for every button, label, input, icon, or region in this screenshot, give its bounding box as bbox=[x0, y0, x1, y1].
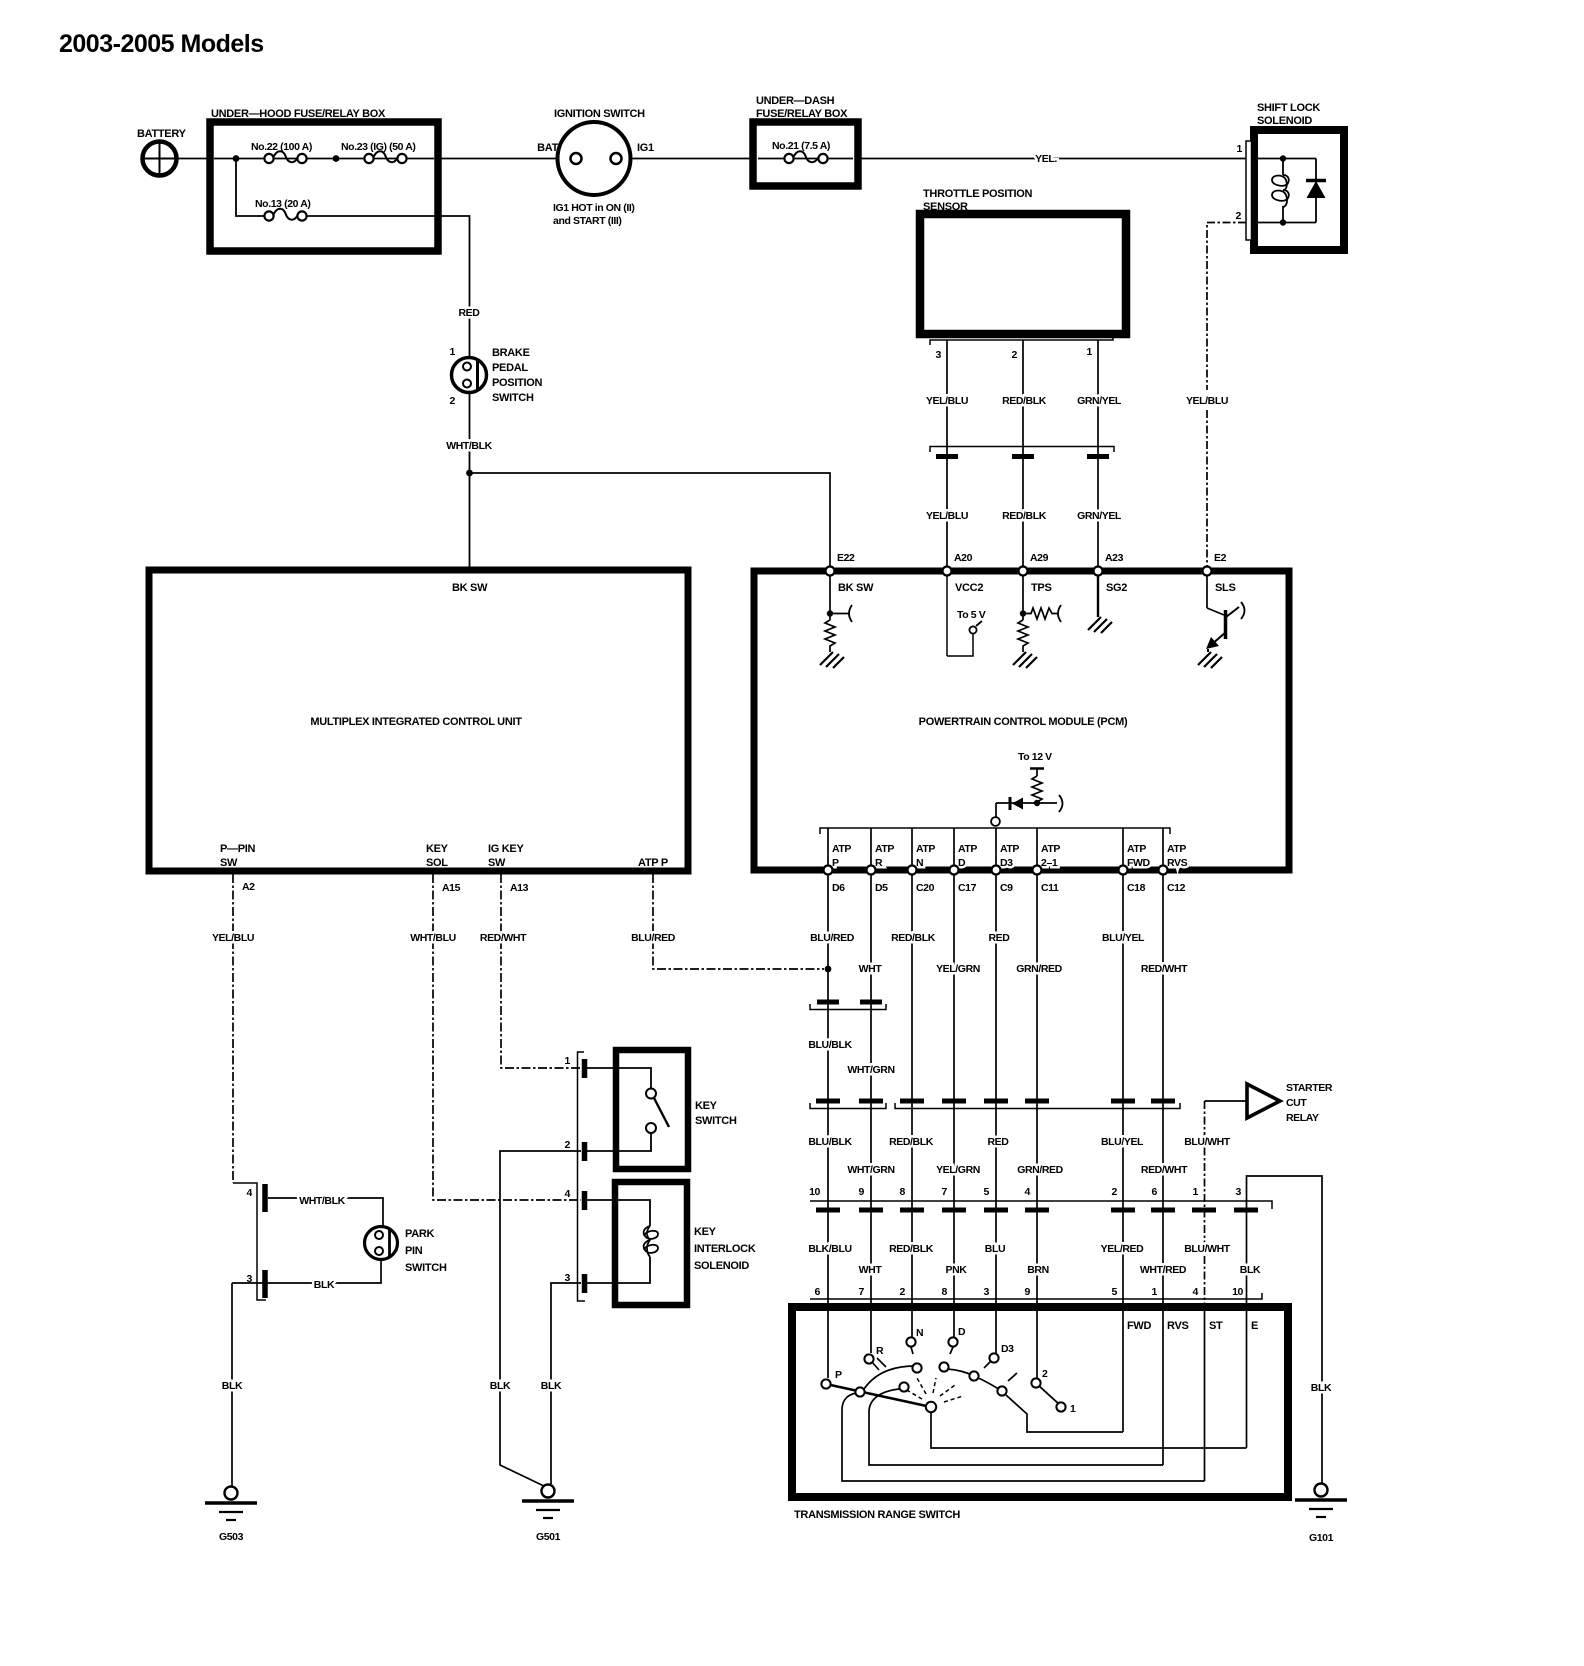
wire RED/WHT MICU A13 to key switch pin 1 bbox=[501, 874, 581, 1068]
range switch routing: FWD U-path bbox=[1006, 1395, 1123, 1432]
ground G501 bbox=[522, 1485, 574, 1544]
wire YEL/BLU from solenoid pin 2 down to PCM E2 bbox=[1207, 223, 1246, 391]
key interlock solenoid coil L2 bbox=[587, 1200, 658, 1283]
svg-text:POSITION: POSITION bbox=[492, 377, 543, 389]
svg-text:A20: A20 bbox=[954, 552, 973, 564]
svg-text:1: 1 bbox=[450, 346, 456, 358]
ignition switch bbox=[537, 108, 654, 227]
svg-text:C9: C9 bbox=[1000, 882, 1013, 894]
svg-text:C18: C18 bbox=[1127, 882, 1146, 894]
svg-text:N: N bbox=[916, 857, 923, 869]
svg-text:To 12 V: To 12 V bbox=[1018, 751, 1052, 763]
connector C1 below TPS (bracket and terminal bars) bbox=[930, 447, 1114, 457]
PCM pin ATP FWD / C18 bbox=[1119, 843, 1151, 894]
svg-text:GRN/RED: GRN/RED bbox=[1017, 1164, 1063, 1176]
svg-text:SLS: SLS bbox=[1215, 582, 1236, 594]
svg-text:1: 1 bbox=[1237, 143, 1243, 155]
key switch box bbox=[616, 1050, 737, 1169]
svg-text:BK SW: BK SW bbox=[838, 582, 874, 594]
svg-text:6: 6 bbox=[1152, 1186, 1158, 1198]
node: battery feed junction bbox=[233, 155, 240, 162]
wire BLU/RED MICU ATP P to junction bbox=[653, 874, 824, 969]
PCM pin A23 bbox=[1094, 552, 1128, 594]
svg-text:BLU/RED: BLU/RED bbox=[631, 932, 676, 944]
svg-text:A15: A15 bbox=[442, 882, 461, 894]
diode D1 in solenoid bbox=[1306, 159, 1326, 223]
inner contact C bbox=[912, 1363, 921, 1372]
svg-text:10: 10 bbox=[809, 1186, 820, 1198]
svg-text:WHT/GRN: WHT/GRN bbox=[847, 1064, 894, 1076]
node WHT/BLK junction bbox=[466, 470, 473, 477]
svg-text:2: 2 bbox=[565, 1139, 571, 1151]
PCM internal ATP pull-up to 12V: label, resistor, diode, node, bracket bbox=[991, 751, 1062, 826]
svg-text:10: 10 bbox=[1232, 1286, 1243, 1298]
wire branch to fuse No.13 bbox=[236, 159, 265, 217]
wire inside solenoid pin2 bbox=[1252, 222, 1316, 224]
PCM internal SLS driver transistor Q1 bbox=[1198, 575, 1245, 668]
PCM internal BK SW pull-down: wire, node, bracket, resistor, ground bbox=[820, 575, 852, 668]
svg-text:KEY: KEY bbox=[426, 843, 449, 855]
PCM pin ATP N / C20 bbox=[908, 843, 936, 894]
svg-text:8: 8 bbox=[900, 1186, 906, 1198]
ground G101 bbox=[1295, 1484, 1347, 1545]
wire YEL/BLU MICU A2 to park pin switch connector pin 4 bbox=[232, 874, 234, 1183]
svg-text:FWD: FWD bbox=[1127, 857, 1151, 869]
PCM pin ATP P / D6 bbox=[824, 843, 852, 894]
svg-text:SW: SW bbox=[220, 857, 238, 869]
range switch routing: E common path from rotor bbox=[931, 1412, 1247, 1448]
svg-text:BLU/YEL: BLU/YEL bbox=[1102, 932, 1145, 944]
svg-text:R: R bbox=[876, 1345, 884, 1357]
svg-text:G503: G503 bbox=[219, 1531, 244, 1543]
inner contact F bbox=[997, 1386, 1006, 1395]
connector C4 (10-wire) bracket and bars bbox=[810, 1201, 1272, 1210]
svg-text:YEL/GRN: YEL/GRN bbox=[936, 963, 980, 975]
svg-text:WHT/RED: WHT/RED bbox=[1140, 1264, 1187, 1276]
svg-text:WHT/BLK: WHT/BLK bbox=[299, 1195, 345, 1207]
svg-text:PIN: PIN bbox=[405, 1245, 423, 1257]
svg-text:SOLENOID: SOLENOID bbox=[1257, 115, 1312, 127]
svg-text:R: R bbox=[875, 857, 883, 869]
wire GRN/YEL TPS pin1 to PCM A23 bbox=[1097, 340, 1099, 568]
key switch / key interlock connector bracket bbox=[578, 1052, 586, 1301]
dashed wiper rays from pivot bbox=[905, 1378, 963, 1402]
svg-text:PNK: PNK bbox=[946, 1264, 968, 1276]
svg-text:ATP: ATP bbox=[875, 843, 894, 855]
key interlock solenoid box bbox=[615, 1182, 756, 1305]
svg-text:BLK: BLK bbox=[541, 1380, 562, 1392]
svg-text:SHIFT LOCK: SHIFT LOCK bbox=[1257, 102, 1320, 114]
svg-text:WHT/BLU: WHT/BLU bbox=[410, 932, 456, 944]
wire inside solenoid pin1 bbox=[1252, 158, 1316, 160]
PCM internal VCC2 to 5V reference bbox=[947, 575, 986, 656]
node solenoid coil bottom bbox=[1280, 219, 1286, 225]
svg-text:P: P bbox=[835, 1369, 842, 1381]
under-hood fuse/relay box bbox=[210, 108, 438, 251]
wire column ATP 2-1 (GRN/RED) down to range switch 2 bbox=[1036, 874, 1038, 1378]
svg-text:1: 1 bbox=[565, 1055, 571, 1067]
svg-text:POWERTRAIN CONTROL MODULE (PCM: POWERTRAIN CONTROL MODULE (PCM) bbox=[919, 716, 1128, 728]
wire RED: fuse No.13 to brake pedal position switch bbox=[307, 216, 470, 357]
PCM pin E22 bbox=[826, 552, 875, 594]
svg-text:N: N bbox=[916, 1327, 923, 1339]
svg-text:FUSE/RELAY BOX: FUSE/RELAY BOX bbox=[756, 108, 848, 120]
svg-text:C12: C12 bbox=[1167, 882, 1186, 894]
wire column E / pin3 (BLK to G101) bbox=[1247, 1176, 1323, 1484]
svg-text:E22: E22 bbox=[837, 552, 855, 564]
svg-text:C20: C20 bbox=[916, 882, 935, 894]
under-dash fuse/relay box bbox=[753, 95, 858, 186]
svg-text:RED: RED bbox=[989, 932, 1011, 944]
svg-text:G101: G101 bbox=[1309, 1532, 1334, 1544]
inner contact A bbox=[855, 1387, 864, 1396]
svg-text:YEL/GRN: YEL/GRN bbox=[936, 1164, 980, 1176]
connector C2 (2-wire) bars and bracket bbox=[810, 1002, 886, 1010]
svg-text:9: 9 bbox=[1025, 1286, 1031, 1298]
svg-text:RED/BLK: RED/BLK bbox=[891, 932, 936, 944]
wire BLK key switch pin 2 to ground G501 bbox=[500, 1151, 581, 1487]
svg-text:ATP P: ATP P bbox=[638, 857, 668, 869]
contact D3 tail bbox=[984, 1361, 991, 1368]
PCM: powertrain control module box bbox=[754, 571, 1289, 870]
svg-text:BLU/BLK: BLU/BLK bbox=[808, 1136, 852, 1148]
svg-text:P: P bbox=[832, 857, 839, 869]
PCM internal TPS network: node, series resistor, bracket, pull resistor, ground bbox=[1013, 575, 1061, 668]
svg-text:BK SW: BK SW bbox=[452, 582, 488, 594]
svg-text:1: 1 bbox=[1193, 1186, 1199, 1198]
wire column ATP D (YEL/GRN) down to range switch D bbox=[953, 874, 955, 1337]
svg-text:WHT/BLK: WHT/BLK bbox=[446, 440, 492, 452]
svg-text:No.13 (20 A): No.13 (20 A) bbox=[255, 198, 311, 210]
svg-text:3: 3 bbox=[984, 1286, 990, 1298]
connector bracket at range switch bbox=[810, 1293, 1262, 1299]
ground G503 bbox=[205, 1487, 257, 1544]
svg-text:WHT/GRN: WHT/GRN bbox=[847, 1164, 894, 1176]
contact P bbox=[821, 1369, 842, 1389]
solenoid coil L1 bbox=[1272, 159, 1289, 223]
svg-text:BLK: BLK bbox=[1311, 1382, 1332, 1394]
svg-text:TPS: TPS bbox=[1031, 582, 1052, 594]
starter cut relay bbox=[1205, 1082, 1333, 1124]
svg-text:TRANSMISSION RANGE SWITCH: TRANSMISSION RANGE SWITCH bbox=[794, 1509, 960, 1521]
svg-text:RED/BLK: RED/BLK bbox=[1002, 395, 1047, 407]
contact D3 bbox=[989, 1343, 1014, 1363]
svg-text:ATP: ATP bbox=[1041, 843, 1060, 855]
svg-text:E2: E2 bbox=[1214, 552, 1227, 564]
svg-text:5: 5 bbox=[984, 1186, 990, 1198]
svg-text:BLK/BLU: BLK/BLU bbox=[808, 1243, 851, 1255]
svg-text:2: 2 bbox=[1042, 1368, 1048, 1380]
wire WHT/BLU MICU A15 to key interlock solenoid pin 4 bbox=[433, 874, 581, 1200]
svg-text:ATP: ATP bbox=[832, 843, 851, 855]
svg-text:SWITCH: SWITCH bbox=[695, 1115, 737, 1127]
svg-text:THROTTLE POSITION: THROTTLE POSITION bbox=[923, 188, 1033, 200]
svg-text:INTERLOCK: INTERLOCK bbox=[694, 1243, 756, 1255]
inner contact B bbox=[899, 1382, 908, 1391]
svg-text:ATP: ATP bbox=[1000, 843, 1019, 855]
svg-text:RED/WHT: RED/WHT bbox=[1141, 963, 1188, 975]
PCM pin A29 bbox=[1019, 552, 1052, 594]
pin numbers above 10-pin connector bbox=[809, 1186, 1241, 1198]
svg-text:A23: A23 bbox=[1105, 552, 1124, 564]
tick mark right bbox=[1008, 1373, 1017, 1381]
svg-text:SOLENOID: SOLENOID bbox=[694, 1260, 749, 1272]
throttle position sensor bbox=[920, 188, 1126, 334]
wire YEL: under-dash box to shift lock solenoid bbox=[858, 158, 1247, 160]
rotor pivot bbox=[926, 1402, 936, 1412]
svg-text:UNDER—DASH: UNDER—DASH bbox=[756, 95, 835, 107]
svg-text:D6: D6 bbox=[832, 882, 845, 894]
svg-text:G501: G501 bbox=[536, 1531, 561, 1543]
svg-text:IG1: IG1 bbox=[637, 142, 654, 154]
svg-text:WHT: WHT bbox=[859, 1264, 883, 1276]
svg-text:SG2: SG2 bbox=[1106, 582, 1127, 594]
wire main bus to ignition switch bbox=[438, 158, 558, 160]
svg-text:A29: A29 bbox=[1030, 552, 1049, 564]
svg-text:RED/WHT: RED/WHT bbox=[1141, 1164, 1188, 1176]
svg-text:C11: C11 bbox=[1041, 882, 1059, 894]
svg-text:D: D bbox=[958, 1326, 966, 1338]
svg-text:KEY: KEY bbox=[694, 1226, 717, 1238]
contact R tail bbox=[872, 1362, 879, 1370]
brake pedal position switch bbox=[450, 346, 543, 407]
svg-text:To 5 V: To 5 V bbox=[957, 609, 986, 621]
svg-text:YEL.: YEL. bbox=[1035, 153, 1057, 165]
svg-text:IGNITION SWITCH: IGNITION SWITCH bbox=[554, 108, 645, 120]
contact 1 bbox=[1056, 1402, 1076, 1415]
svg-text:BLK: BLK bbox=[1240, 1264, 1261, 1276]
svg-text:ATP: ATP bbox=[916, 843, 935, 855]
svg-text:BLU/YEL: BLU/YEL bbox=[1101, 1136, 1144, 1148]
fuse No.23 (IG) (50 A) bbox=[341, 141, 416, 163]
contact 2 bbox=[1031, 1368, 1048, 1388]
svg-text:YEL/BLU: YEL/BLU bbox=[926, 395, 968, 407]
svg-text:8: 8 bbox=[942, 1286, 948, 1298]
svg-text:SWITCH: SWITCH bbox=[405, 1262, 447, 1274]
PCM internal ATP bus line bbox=[820, 828, 1170, 834]
svg-text:5: 5 bbox=[1112, 1286, 1118, 1298]
tick mark left bbox=[877, 1358, 886, 1367]
svg-text:RED: RED bbox=[988, 1136, 1010, 1148]
wire BLU/WHT starter cut relay column bbox=[1204, 1101, 1206, 1481]
range switch routing: RVS U-path bbox=[869, 1389, 1163, 1465]
wire column ATP R (WHT) down to range switch R bbox=[870, 874, 872, 1353]
svg-text:BAT: BAT bbox=[537, 142, 558, 154]
PCM pin ATP D / C17 bbox=[950, 843, 978, 894]
wire battery to under-hood fuse box bbox=[177, 158, 213, 160]
svg-text:4: 4 bbox=[1193, 1286, 1199, 1298]
svg-text:GRN/YEL: GRN/YEL bbox=[1077, 510, 1122, 522]
wire WHT/BLK connector to park pin switch bbox=[268, 1198, 383, 1226]
svg-text:BLU: BLU bbox=[985, 1243, 1005, 1255]
svg-text:D3: D3 bbox=[1001, 1343, 1014, 1355]
svg-text:4: 4 bbox=[1025, 1186, 1031, 1198]
svg-text:A13: A13 bbox=[510, 882, 529, 894]
svg-text:7: 7 bbox=[859, 1286, 865, 1298]
svg-text:UNDER—HOOD FUSE/RELAY BOX: UNDER—HOOD FUSE/RELAY BOX bbox=[211, 108, 386, 120]
wire RED/BLK TPS pin2 to PCM A29 bbox=[1022, 340, 1024, 568]
arc left contact group bbox=[864, 1366, 915, 1389]
svg-text:BLU/BLK: BLU/BLK bbox=[808, 1039, 852, 1051]
PCM pin ATP 2-1 / C11 bbox=[1033, 843, 1061, 894]
svg-text:BLU/WHT: BLU/WHT bbox=[1184, 1243, 1231, 1255]
contact R bbox=[864, 1345, 884, 1364]
svg-text:BATTERY: BATTERY bbox=[137, 128, 187, 140]
svg-text:ATP: ATP bbox=[1127, 843, 1146, 855]
node: junction between fuses bbox=[333, 155, 340, 162]
svg-text:1: 1 bbox=[1087, 346, 1093, 358]
svg-text:BRAKE: BRAKE bbox=[492, 347, 530, 359]
wire BLK park pin switch to connector pin 3 bbox=[232, 1260, 381, 1283]
wire column ATP N (RED/BLK) down to range switch N bbox=[911, 874, 913, 1337]
svg-text:ATP: ATP bbox=[1167, 843, 1186, 855]
svg-text:RED: RED bbox=[459, 307, 481, 319]
wire BLK key interlock pin 3 to ground G501 bbox=[551, 1283, 581, 1484]
key switch contacts bbox=[587, 1068, 669, 1151]
svg-text:WHT: WHT bbox=[859, 963, 883, 975]
svg-text:2: 2 bbox=[1236, 210, 1242, 222]
svg-text:D5: D5 bbox=[875, 882, 888, 894]
svg-text:RED/BLK: RED/BLK bbox=[1002, 510, 1047, 522]
svg-text:IG1 HOT in ON (II): IG1 HOT in ON (II) bbox=[553, 202, 634, 214]
connector bracket under TPS bbox=[930, 334, 1113, 345]
svg-text:ATP: ATP bbox=[958, 843, 977, 855]
wire WHT/BLK brake switch to MICU BK SW bbox=[469, 393, 471, 571]
svg-text:YEL/BLU: YEL/BLU bbox=[212, 932, 254, 944]
range switch routing: ST U-path bbox=[842, 1393, 1205, 1481]
svg-text:P—PIN: P—PIN bbox=[220, 843, 256, 855]
svg-text:GRN/YEL: GRN/YEL bbox=[1077, 395, 1122, 407]
wire main bus inside under-hood box bbox=[214, 158, 434, 160]
svg-text:D3: D3 bbox=[1000, 857, 1013, 869]
rotor blade P to pivot bbox=[826, 1384, 931, 1407]
svg-text:FWD: FWD bbox=[1127, 1320, 1152, 1332]
svg-text:RED/BLK: RED/BLK bbox=[889, 1243, 934, 1255]
wire column ATP FWD (BLU/YEL) down into range switch bbox=[1122, 874, 1124, 1432]
svg-text:GRN/RED: GRN/RED bbox=[1016, 963, 1062, 975]
svg-text:2: 2 bbox=[1112, 1186, 1118, 1198]
svg-text:SOL: SOL bbox=[426, 857, 448, 869]
svg-text:SWITCH: SWITCH bbox=[492, 392, 534, 404]
svg-text:ST: ST bbox=[1209, 1320, 1223, 1332]
svg-text:BLK: BLK bbox=[314, 1279, 335, 1291]
fuse No.21 (7.5 A) bbox=[758, 140, 853, 163]
connector at shift lock solenoid bbox=[1246, 141, 1252, 240]
svg-text:KEY: KEY bbox=[695, 1100, 718, 1112]
arc right contact group bbox=[947, 1369, 1003, 1392]
fuse No.22 (100 A) bbox=[251, 141, 312, 163]
wire column ATP D3 (RED) down to range switch D3 bbox=[995, 874, 997, 1353]
svg-text:A2: A2 bbox=[242, 881, 255, 893]
svg-text:PEDAL: PEDAL bbox=[492, 362, 528, 374]
svg-text:2: 2 bbox=[900, 1286, 906, 1298]
svg-text:RELAY: RELAY bbox=[1286, 1112, 1319, 1124]
svg-text:D: D bbox=[958, 857, 966, 869]
fuse No.13 (20 A) bbox=[255, 198, 311, 221]
svg-text:BRN: BRN bbox=[1027, 1264, 1049, 1276]
svg-text:9: 9 bbox=[859, 1186, 865, 1198]
PCM pin ATP R / D5 bbox=[867, 843, 895, 894]
svg-text:3: 3 bbox=[936, 349, 942, 361]
contact D tail bbox=[950, 1347, 953, 1354]
svg-text:RED/BLK: RED/BLK bbox=[889, 1136, 934, 1148]
svg-text:3: 3 bbox=[1236, 1186, 1242, 1198]
connector C3 (8-wire) bars and brackets bbox=[810, 1101, 1180, 1109]
svg-text:YEL/BLU: YEL/BLU bbox=[1186, 395, 1228, 407]
wire YEL/BLU TPS pin3 to PCM A20 bbox=[946, 340, 948, 568]
svg-text:BLK: BLK bbox=[490, 1380, 511, 1392]
svg-text:BLK: BLK bbox=[222, 1380, 243, 1392]
svg-text:E: E bbox=[1251, 1320, 1258, 1332]
wire column ATP P (BLU/RED then BLU/BLK then BLK/BLU) down to range switch P bbox=[827, 874, 829, 1378]
svg-text:STARTER: STARTER bbox=[1286, 1082, 1333, 1094]
PCM ATP pin stubs from bus to bottom edge bbox=[828, 828, 1163, 868]
svg-text:6: 6 bbox=[815, 1286, 821, 1298]
svg-text:and START (III): and START (III) bbox=[553, 215, 621, 227]
inner contact E bbox=[969, 1371, 978, 1380]
svg-text:RED/WHT: RED/WHT bbox=[480, 932, 527, 944]
svg-text:2003-2005 Models: 2003-2005 Models bbox=[59, 30, 264, 58]
PCM pin ATP RVS / C12 bbox=[1159, 843, 1188, 894]
wire column ATP RVS (RED/WHT) down into range switch bbox=[1162, 874, 1164, 1465]
svg-text:YEL/BLU: YEL/BLU bbox=[926, 510, 968, 522]
park pin switch connector bracket bbox=[233, 1183, 266, 1300]
svg-text:No.21 (7.5 A): No.21 (7.5 A) bbox=[772, 140, 830, 152]
svg-text:SW: SW bbox=[488, 857, 506, 869]
svg-text:VCC2: VCC2 bbox=[955, 582, 983, 594]
wire WHT/BLK junction to PCM E22 bbox=[470, 473, 831, 568]
svg-text:PARK: PARK bbox=[405, 1228, 435, 1240]
svg-text:1: 1 bbox=[1070, 1403, 1076, 1415]
node solenoid coil top bbox=[1280, 155, 1286, 161]
battery B1 bbox=[137, 128, 187, 176]
PCM pin E2 bbox=[1203, 552, 1236, 594]
svg-text:YEL/RED: YEL/RED bbox=[1101, 1243, 1145, 1255]
PCM pin ATP D3 / C9 bbox=[992, 843, 1020, 894]
PCM pin A20 bbox=[943, 552, 984, 594]
inner contact D bbox=[939, 1362, 948, 1371]
svg-text:C17: C17 bbox=[958, 882, 977, 894]
contact N bbox=[906, 1327, 923, 1347]
blade 2 to 1 bbox=[1038, 1385, 1060, 1405]
contact D bbox=[948, 1326, 966, 1347]
svg-text:MULTIPLEX INTEGRATED CONTROL U: MULTIPLEX INTEGRATED CONTROL UNIT bbox=[310, 716, 522, 728]
svg-text:7: 7 bbox=[942, 1186, 948, 1198]
pin numbers above range switch bbox=[815, 1286, 1244, 1298]
range switch internal column wires bbox=[828, 1311, 1247, 1481]
MICU: multiplex integrated control unit box bbox=[149, 570, 688, 871]
svg-text:IG KEY: IG KEY bbox=[488, 843, 524, 855]
svg-text:RVS: RVS bbox=[1167, 1320, 1189, 1332]
node BLU/RED junction bbox=[825, 966, 832, 973]
transmission range switch box bbox=[792, 1307, 1288, 1521]
svg-text:BLU/WHT: BLU/WHT bbox=[1184, 1136, 1231, 1148]
svg-text:4: 4 bbox=[565, 1188, 571, 1200]
svg-text:1: 1 bbox=[1152, 1286, 1158, 1298]
svg-text:4: 4 bbox=[247, 1187, 253, 1199]
wire BLK to ground G503 bbox=[231, 1283, 233, 1486]
shift lock solenoid bbox=[1254, 102, 1344, 250]
svg-text:2: 2 bbox=[450, 395, 456, 407]
park pin switch bbox=[365, 1227, 447, 1275]
PCM internal SG2 ground bbox=[1088, 575, 1112, 633]
svg-text:2–1: 2–1 bbox=[1041, 857, 1058, 869]
svg-text:RVS: RVS bbox=[1167, 857, 1188, 869]
wire IG1 to under-dash fuse box bbox=[631, 158, 756, 160]
svg-text:BLU/RED: BLU/RED bbox=[810, 932, 855, 944]
svg-text:CUT: CUT bbox=[1286, 1097, 1307, 1109]
contact N tail bbox=[911, 1347, 913, 1354]
